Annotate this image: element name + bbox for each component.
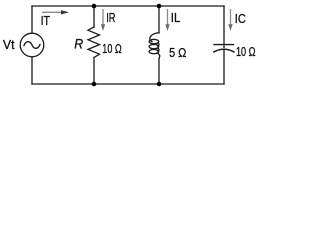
current arrow IR — [101, 9, 105, 31]
wire bottom — [32, 83, 224, 85]
svg-text:IT: IT — [41, 14, 51, 28]
inductor L coil — [149, 33, 160, 59]
wire left (source top lead) — [31, 6, 33, 33]
svg-text:IL: IL — [171, 11, 181, 25]
svg-text:5 Ω: 5 Ω — [169, 46, 186, 60]
wire left (source bottom lead) — [31, 57, 33, 84]
capacitor C curved bottom plate — [214, 49, 234, 52]
junction node top-L — [157, 4, 162, 9]
wire inductor bottom lead — [158, 58, 160, 84]
svg-text:IR: IR — [106, 11, 115, 25]
capacitor C top plate — [214, 44, 234, 46]
wire resistor top lead — [93, 6, 95, 27]
wire resistor bottom lead — [93, 58, 95, 85]
wire capacitor bottom lead — [223, 49, 225, 84]
source sine wave — [24, 42, 40, 49]
wire top — [32, 5, 224, 7]
svg-text:Vt: Vt — [3, 38, 15, 52]
wire capacitor top lead — [223, 6, 225, 47]
junction node bottom-L — [157, 82, 162, 87]
current arrow IL — [165, 9, 169, 31]
resistor R — [88, 27, 100, 58]
svg-text:10 Ω: 10 Ω — [236, 45, 256, 59]
junction node top-R — [92, 4, 97, 9]
junction node bottom-R — [92, 82, 97, 87]
current arrow IC — [228, 9, 232, 31]
svg-text:IC: IC — [235, 12, 246, 26]
svg-text:10 Ω: 10 Ω — [102, 42, 122, 56]
svg-text:R: R — [74, 36, 83, 52]
current arrow IT — [42, 10, 69, 14]
wire inductor top lead — [158, 6, 160, 33]
source Vt circle — [20, 33, 44, 57]
